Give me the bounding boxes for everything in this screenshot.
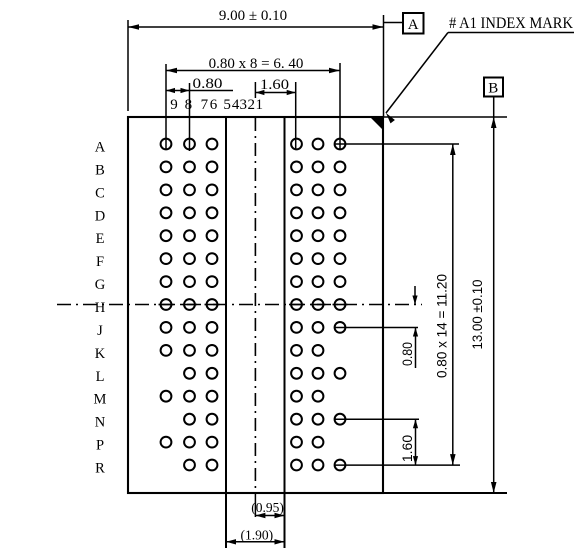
svg-text:5: 5: [223, 97, 231, 113]
bottom extension line 13.00: [128, 492, 507, 494]
ball M7: [207, 391, 218, 402]
ball N7: [207, 414, 218, 425]
ball B2: [313, 162, 324, 173]
ball C8: [184, 185, 195, 196]
svg-text:13.00 ±0.10: 13.00 ±0.10: [469, 279, 485, 349]
svg-text:2: 2: [248, 97, 256, 113]
ball D2: [313, 207, 324, 218]
ball K8: [184, 345, 195, 356]
channel line right: [284, 117, 286, 548]
ball A1: [335, 139, 346, 150]
ball J2: [313, 322, 324, 333]
ball R3: [291, 460, 302, 471]
extension line col 9: [165, 64, 167, 150]
center line vertical: [254, 82, 256, 98]
ball F9: [161, 253, 172, 264]
ball D1: [335, 207, 346, 218]
ball C7: [207, 185, 218, 196]
ball H2: [313, 299, 324, 310]
dimension 0.80 right: [414, 286, 416, 305]
svg-text:K: K: [95, 346, 106, 362]
ball L3: [291, 368, 302, 379]
svg-text:7: 7: [201, 97, 209, 113]
extension line row R: [334, 464, 460, 466]
ball R2: [313, 460, 324, 471]
ball P8: [184, 437, 195, 448]
svg-text:0.80: 0.80: [193, 76, 223, 92]
ball C2: [313, 185, 324, 196]
ball A8: [184, 139, 195, 150]
ball M8: [184, 391, 195, 402]
ball G1: [335, 276, 346, 287]
ball J3: [291, 322, 302, 333]
svg-text:A: A: [95, 140, 106, 156]
ball E2: [313, 230, 324, 241]
ball A9: [161, 139, 172, 150]
svg-text:# A1 INDEX MARK: # A1 INDEX MARK: [449, 15, 573, 32]
ball D8: [184, 207, 195, 218]
ball E3: [291, 230, 302, 241]
extension line row J: [334, 327, 418, 329]
extension line right edge: [383, 15, 385, 117]
svg-text:6: 6: [210, 97, 218, 113]
ball H7: [207, 299, 218, 310]
svg-text:1: 1: [255, 97, 263, 113]
ball G3: [291, 276, 302, 287]
ball N8: [184, 414, 195, 425]
ball E8: [184, 230, 195, 241]
ball B1: [335, 162, 346, 173]
svg-text:B: B: [95, 162, 105, 178]
ball D7: [207, 207, 218, 218]
ball R8: [184, 460, 195, 471]
ball J1: [335, 322, 346, 333]
extension line col 1: [339, 63, 341, 150]
ball J9: [161, 322, 172, 333]
extension line col 8: [189, 83, 191, 151]
ball E9: [161, 230, 172, 241]
ball M2: [313, 391, 324, 402]
datum B box: [484, 78, 503, 97]
ball E1: [335, 230, 346, 241]
svg-text:F: F: [96, 254, 104, 270]
ball H3: [291, 299, 302, 310]
ball H1: [335, 299, 346, 310]
extension line row A: [334, 143, 459, 145]
ball L7: [207, 368, 218, 379]
svg-text:D: D: [95, 208, 105, 224]
svg-text:1.60: 1.60: [399, 435, 415, 462]
ball B3: [291, 162, 302, 173]
dimension 0.80 x 14 = 11.20: [452, 144, 454, 465]
ball E7: [207, 230, 218, 241]
ball G9: [161, 276, 172, 287]
ball K2: [313, 345, 324, 356]
ball J8: [184, 322, 195, 333]
ball F1: [335, 253, 346, 264]
svg-text:9.00 ± 0.10: 9.00 ± 0.10: [219, 8, 287, 24]
package outline: [128, 117, 383, 493]
svg-text:3: 3: [239, 97, 247, 113]
ball H8: [184, 299, 195, 310]
ball C3: [291, 185, 302, 196]
ball C9: [161, 185, 172, 196]
svg-text:M: M: [94, 392, 107, 408]
ball M3: [291, 391, 302, 402]
svg-text:8: 8: [185, 97, 193, 113]
ball G7: [207, 276, 218, 287]
top extension line 13.00: [383, 116, 507, 118]
channel line left: [225, 117, 227, 548]
ball L8: [184, 368, 195, 379]
ball G8: [184, 276, 195, 287]
ball F8: [184, 253, 195, 264]
ball K7: [207, 345, 218, 356]
svg-text:E: E: [96, 231, 105, 247]
ball G2: [313, 276, 324, 287]
ball L1: [335, 368, 346, 379]
ball F3: [291, 253, 302, 264]
ball K9: [161, 345, 172, 356]
svg-text:0.80 x 14 = 11.20: 0.80 x 14 = 11.20: [434, 274, 450, 378]
ball J7: [207, 322, 218, 333]
ball N2: [313, 414, 324, 425]
svg-text:C: C: [95, 185, 105, 201]
svg-text:(0.95): (0.95): [251, 500, 284, 515]
ball M9: [161, 391, 172, 402]
svg-text:0.80: 0.80: [399, 342, 415, 366]
svg-text:9: 9: [170, 97, 178, 113]
ball B9: [161, 162, 172, 173]
ball P9: [161, 437, 172, 448]
ball L2: [313, 368, 324, 379]
datum A box: [384, 22, 404, 24]
ball B7: [207, 162, 218, 173]
svg-text:(1.90): (1.90): [240, 528, 273, 543]
ball A2: [313, 139, 324, 150]
extension line left edge: [127, 20, 129, 111]
ball K3: [291, 345, 302, 356]
svg-text:R: R: [95, 461, 105, 477]
A1 index leader: [448, 32, 574, 34]
svg-text:A: A: [408, 17, 419, 33]
ball H9: [161, 299, 172, 310]
ball N1: [335, 414, 346, 425]
svg-text:H: H: [95, 300, 106, 316]
ball A7: [207, 139, 218, 150]
ball R1: [335, 460, 346, 471]
ball C1: [335, 185, 346, 196]
ball B8: [184, 162, 195, 173]
svg-text:J: J: [97, 323, 103, 339]
ball D3: [291, 207, 302, 218]
ball D9: [161, 207, 172, 218]
svg-text:P: P: [96, 438, 104, 454]
center line row H: [57, 304, 422, 306]
ball F2: [313, 253, 324, 264]
dimension 1.60 right: [415, 419, 417, 465]
extension line col 3: [295, 82, 297, 150]
dimension 13.00 +/- 0.10: [493, 117, 495, 493]
ball F7: [207, 253, 218, 264]
ball P3: [291, 437, 302, 448]
svg-text:G: G: [95, 277, 106, 293]
ball A3: [291, 139, 302, 150]
ball N3: [291, 414, 302, 425]
svg-text:B: B: [488, 81, 498, 97]
svg-text:L: L: [96, 369, 105, 385]
A1 index mark triangle: [370, 117, 383, 130]
ball P2: [313, 437, 324, 448]
ball R7: [207, 460, 218, 471]
svg-text:0.80 x 8 = 6. 40: 0.80 x 8 = 6. 40: [209, 56, 304, 72]
ball P7: [207, 437, 218, 448]
svg-text:N: N: [95, 415, 106, 431]
extension line row N: [334, 418, 419, 420]
